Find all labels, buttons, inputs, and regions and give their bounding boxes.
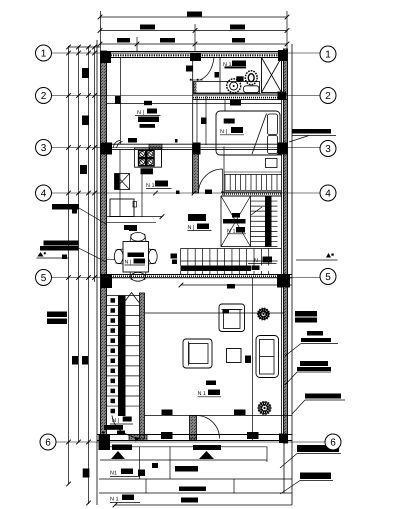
armchair left — [183, 339, 212, 368]
porch vertical d — [266, 447, 268, 462]
top dimension text 2a — [140, 25, 155, 30]
block vestibule a — [162, 410, 173, 416]
fridge bottom line — [107, 216, 163, 218]
top dimension text 3c — [232, 38, 245, 43]
bathroom block — [236, 76, 243, 81]
right annotation grid3 — [289, 129, 336, 142]
vertical stair rail bar — [118, 296, 126, 417]
vestibule line — [145, 415, 293, 417]
niche box right wall — [266, 159, 278, 168]
column grid6 right — [279, 434, 288, 444]
porch line 1 — [101, 446, 268, 448]
dining side blocks — [171, 254, 178, 265]
upper stair flight — [224, 147, 282, 197]
hall label — [188, 224, 212, 232]
porch line 4 — [99, 492, 292, 494]
bedroom2 label — [220, 127, 244, 135]
porch label 1 — [110, 469, 140, 477]
column grid2 right — [278, 92, 287, 100]
dining chair left — [114, 249, 123, 264]
svg-text:1: 1 — [325, 49, 331, 60]
dining chair right — [148, 249, 157, 264]
left dimension text 3 — [80, 165, 87, 174]
right wall — [282, 49, 288, 493]
plant 2 — [257, 401, 271, 415]
small block grid3 — [175, 139, 178, 143]
svg-text:N |: N | — [188, 225, 195, 231]
bedroom1 label — [135, 109, 161, 128]
left dimension vertical line c — [86, 46, 91, 505]
lower stair label — [248, 257, 277, 265]
right stair flight — [251, 196, 278, 247]
stair void cross — [221, 196, 251, 247]
left annotation bar 1 — [52, 204, 106, 224]
grid bubble 3 left — [36, 140, 52, 156]
dining table — [123, 242, 149, 273]
block on wall b — [247, 432, 259, 439]
svg-text:4: 4 — [41, 188, 47, 199]
partition kitchen east hatch — [193, 145, 199, 194]
block hall — [215, 72, 220, 78]
vertical stair dots — [111, 298, 116, 413]
bathroom south wall — [193, 94, 288, 100]
block bedroom1 west — [115, 96, 121, 104]
top dimension line 2 — [98, 28, 290, 33]
kitchen label — [146, 181, 172, 190]
svg-text:5: 5 — [41, 273, 47, 284]
kitchen sink box with cross — [115, 174, 130, 190]
svg-text:3: 3 — [325, 144, 331, 155]
fridge — [110, 199, 137, 217]
bedroom2 closet line — [205, 96, 207, 145]
porch label 2 — [110, 495, 140, 503]
bar below wall left — [112, 445, 132, 451]
bottom wall hatch segment b — [190, 435, 197, 441]
bottom wall grid 6 — [97, 435, 292, 441]
svg-text:6: 6 — [45, 437, 51, 448]
stair void label — [227, 227, 246, 235]
column top-right — [278, 50, 287, 61]
bathroom west wall — [219, 58, 221, 94]
vertical stair arrow triangle — [124, 293, 139, 303]
lower stair cut bar — [181, 266, 252, 272]
top dimension line 1 — [98, 15, 290, 20]
svg-text:N 1: N 1 — [110, 497, 119, 503]
column grid3 left — [100, 143, 112, 155]
level change line vertical — [251, 278, 253, 440]
column top-left — [100, 51, 111, 63]
top wall — [100, 52, 288, 58]
block bedroom2 a — [224, 119, 235, 124]
vertical stair label — [110, 417, 133, 425]
kitchen lower line — [107, 221, 157, 223]
lower stair flight — [181, 249, 282, 275]
block on partition — [186, 66, 193, 72]
hall door threshold — [190, 79, 203, 81]
dining chair bottom — [130, 272, 146, 281]
grid bubble 6 left — [40, 434, 56, 450]
column grid3 mid — [193, 143, 201, 155]
porch vertical a — [139, 447, 141, 479]
porch line 2 — [100, 459, 267, 461]
bed blanket fold — [252, 114, 267, 155]
dining chair top — [130, 232, 146, 241]
left dimension text 5 — [83, 469, 90, 478]
lower stair small block — [252, 266, 260, 271]
toilet — [245, 71, 257, 85]
column grid5 left — [101, 274, 112, 288]
left dimension ticks — [66, 51, 97, 445]
shaft with cross — [262, 58, 282, 93]
bottom wall hatch segment a — [129, 435, 147, 441]
left dimension text 4a — [72, 356, 78, 365]
right stair rail bar — [265, 196, 272, 248]
svg-text:3: 3 — [41, 143, 47, 154]
porch block a — [175, 466, 198, 472]
block left vestibule — [104, 425, 123, 430]
porch block b — [179, 487, 206, 492]
kitchen lower block — [124, 225, 137, 230]
grid bubble 5 left — [36, 270, 52, 286]
sofa — [256, 336, 279, 378]
block below step line — [227, 284, 235, 289]
bed pillow 2 — [268, 136, 278, 154]
top dimension line 3 — [98, 42, 290, 47]
entry triangle left — [111, 451, 125, 459]
grid 3 wall — [100, 144, 288, 149]
right annotation b — [285, 331, 338, 356]
svg-text:6: 6 — [330, 437, 336, 448]
left dimension top line — [66, 45, 100, 50]
vestibule partition — [190, 416, 197, 440]
landing wall — [221, 192, 282, 196]
tick on axis4 — [176, 191, 180, 195]
svg-text:4: 4 — [325, 188, 331, 199]
column grid5 right — [277, 275, 290, 288]
stair bottom curved arrow — [112, 416, 140, 442]
porch line 5 — [113, 503, 292, 508]
left dimension text 4b — [82, 356, 88, 365]
grid axis line 5 — [52, 277, 321, 279]
grid 5 wall — [100, 275, 292, 278]
left level mark — [37, 252, 69, 258]
porch block c — [181, 498, 198, 503]
top dimension text 3a — [117, 38, 130, 43]
stair void block b — [223, 219, 246, 224]
grid axis line 1 — [52, 52, 321, 54]
wardrobe line bedroom1 — [120, 58, 122, 145]
bed foot line — [224, 154, 282, 156]
grid bubble 2 left — [36, 88, 52, 104]
bathroom label — [223, 61, 246, 69]
block vestibule b — [234, 410, 246, 416]
kitchen counter line vertical — [119, 150, 121, 217]
grid axis line 2 — [52, 95, 321, 97]
corridor door arc — [199, 169, 223, 193]
vertical stair right wall hatch — [140, 293, 145, 439]
block above grid3 wall — [128, 138, 137, 143]
door marks grid3 left — [113, 141, 123, 149]
grid bubble 2 right — [320, 88, 336, 104]
block bedroom2 c — [230, 100, 241, 106]
entry triangle mid — [199, 451, 214, 459]
kitchen counter front line — [141, 174, 143, 217]
left equals bars — [47, 312, 67, 325]
column grid6 left — [99, 434, 111, 450]
dot left vestibule — [102, 432, 105, 434]
grid bubble 3 right — [320, 141, 336, 157]
right annotation bars a — [295, 311, 317, 323]
right annotation d — [292, 394, 345, 415]
left annotation bar 2 — [40, 241, 106, 263]
svg-text:1: 1 — [41, 48, 47, 59]
stair void block a — [232, 213, 240, 218]
bedroom2 short line — [224, 100, 226, 111]
porch small block a — [138, 470, 145, 477]
left dimension vertical line b — [78, 46, 80, 442]
left wall — [101, 51, 107, 443]
porch vertical b — [169, 447, 171, 479]
tick on level line — [223, 310, 230, 314]
left dimension text 1 — [82, 68, 89, 78]
black box near sofa — [245, 356, 251, 364]
block corridor — [205, 190, 212, 195]
coffee table — [227, 349, 242, 363]
bathroom fixture — [244, 86, 260, 93]
grid axis line 3 — [52, 147, 321, 149]
hall door arc — [200, 58, 214, 80]
outer boundary line right — [291, 44, 293, 505]
svg-text:5: 5 — [325, 272, 331, 283]
porch vertical b2 — [145, 479, 147, 493]
top dimension text 3b — [160, 38, 175, 43]
dining west line — [107, 259, 115, 261]
window sill grid3 wall — [149, 144, 162, 149]
left dimension vertical line a — [66, 46, 71, 486]
kitchen counter under stove — [135, 150, 162, 175]
armchair top — [219, 304, 245, 332]
grid bubble 1 left — [36, 45, 52, 61]
right annotation c — [285, 361, 331, 385]
svg-text:N 1: N 1 — [146, 183, 155, 189]
stove — [135, 148, 162, 167]
block above table — [129, 227, 137, 231]
grid bubble 5 right — [320, 269, 336, 285]
bar below wall mid — [193, 445, 221, 450]
block bedroom2 b — [201, 118, 207, 125]
partition bedroom1 east — [193, 61, 197, 194]
block on wall a — [161, 432, 173, 439]
grid bubble 4 left — [36, 185, 52, 201]
sink — [227, 79, 241, 93]
svg-text:2: 2 — [325, 91, 331, 102]
block bedroom1 mid — [144, 101, 152, 105]
block left vestibule b — [117, 431, 125, 435]
left dimension vertical line d — [94, 46, 96, 282]
porch small block b — [152, 463, 158, 468]
grid bubble 6 right — [325, 434, 341, 450]
vestibule door arc — [197, 416, 220, 439]
right annotation e below grid6 — [280, 445, 341, 468]
top dimension text 2b — [230, 25, 245, 30]
column top-mid — [190, 54, 201, 62]
bed — [216, 111, 280, 155]
dining label — [125, 259, 146, 266]
axis4 slash b — [192, 191, 197, 196]
svg-text:N |: N | — [125, 260, 132, 266]
dining table bar — [128, 253, 145, 258]
left dimension text 2 — [82, 116, 89, 126]
porch line 3 — [99, 478, 292, 480]
svg-text:N1: N1 — [110, 471, 117, 477]
top dimension extension lines — [101, 11, 288, 51]
porch vertical c — [233, 479, 235, 493]
column grid3 right — [278, 143, 288, 155]
grid bubble 4 right — [320, 185, 336, 201]
outer boundary line left — [96, 40, 98, 505]
grid axis line 4 — [52, 192, 321, 194]
svg-text:N 1: N 1 — [198, 391, 207, 397]
bed pillow 1 — [268, 114, 278, 135]
living room label — [198, 390, 222, 398]
fridge line slash — [160, 214, 165, 219]
plant 1 — [257, 308, 270, 321]
grid bubble 1 right — [320, 46, 336, 62]
level change line horizontal — [145, 312, 284, 314]
right level mark — [296, 253, 338, 260]
hall bar label — [188, 214, 206, 221]
beam line y103 — [107, 103, 282, 105]
step line below grid5 — [179, 283, 292, 288]
svg-text:N |: N | — [220, 129, 227, 135]
grid axis line 6 — [56, 441, 325, 443]
vertical stair treads — [107, 296, 140, 407]
top dimension text 1 — [187, 12, 202, 17]
living room block — [206, 381, 216, 386]
svg-text:2: 2 — [41, 91, 47, 102]
right annotation f — [280, 473, 333, 495]
bathroom counter — [194, 82, 260, 94]
axis4 slash a — [153, 191, 158, 196]
